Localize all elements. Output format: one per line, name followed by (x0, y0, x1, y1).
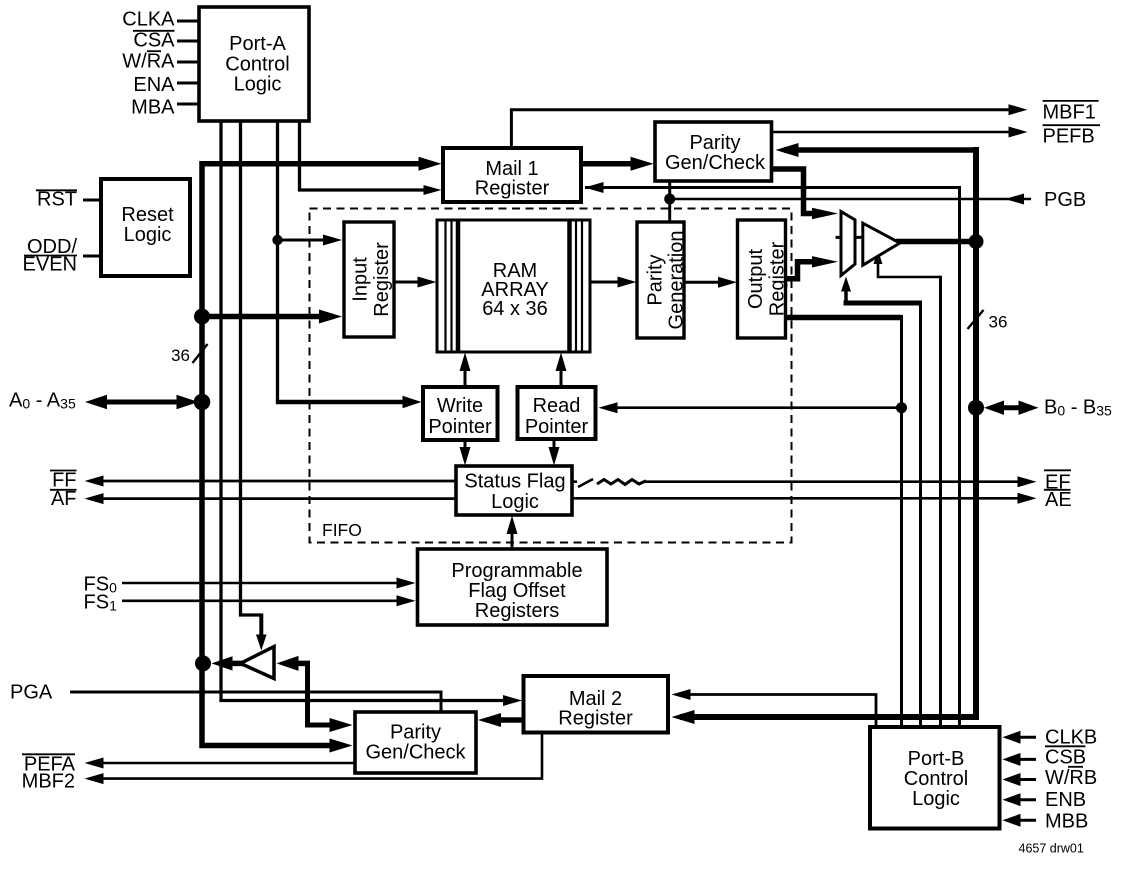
arrowhead: PEFA out (85, 758, 104, 769)
wire: Mail 2 Register thick output to bottom Parity Gen/Check (489, 717, 524, 723)
svg-text:Flag Offset: Flag Offset (468, 580, 566, 602)
svg-text:Input: Input (350, 257, 372, 302)
wire: MBF2 output from Mail 2 Register bottom (95, 733, 542, 779)
arrowhead: Mail 1 thick out into Parity Gen/Check (631, 157, 654, 171)
arrowhead: RAM into Parity Generation (618, 277, 637, 288)
wire: A-port thick bus (left vertical) with top branch to Mail 1 and bottom branch to Parity Gen/Check (202, 164, 433, 746)
wire: PGA input line turning down into bottom Parity Gen/Check (70, 692, 441, 712)
svg-text:Mail 1: Mail 1 (485, 158, 538, 180)
wire: stub between output buffers (836, 236, 867, 239)
slash: B bus width mark 36 (968, 310, 984, 329)
svg-text:Pointer: Pointer (525, 416, 589, 438)
watermark smudge over EF line (577, 475, 645, 489)
svg-text:Register: Register (767, 241, 789, 316)
output buffer 2 (front triangle) (863, 223, 900, 265)
arrowhead: Output Register out into output buffer 2 (812, 256, 838, 267)
wire: W/RA stub (177, 61, 200, 64)
wire: MBA stub (177, 103, 200, 106)
box: Output Register (738, 220, 786, 338)
junction dot: B bus at B0-B35 port (968, 400, 984, 416)
svg-text:4657 drw01: 4657 drw01 (1019, 842, 1084, 856)
arrowhead: FS1 into Programmable registers (397, 595, 416, 606)
output buffer 1 (back, trapezoid) (841, 212, 855, 276)
arrowhead: thick A bus into Mail 1 (419, 157, 442, 171)
wire: Read Pointer up to RAM (560, 360, 563, 387)
arrowhead: thick B bus into Mail 2 right (672, 710, 695, 724)
wire: ODD/EVEN stub into Reset Logic (83, 255, 102, 258)
wire: RST stub into Reset Logic (83, 199, 102, 202)
wire: Port-A vertical line 2 jog down to left tri-state enable (241, 121, 262, 615)
wire: Port-A vertical line 1 down to Mail 2 Register thin input (221, 121, 512, 701)
arrowhead: Mail 2 out into bottom Parity Gen/Check right (478, 713, 501, 727)
box: Parity Generation (637, 222, 684, 338)
arrowhead: into Read Pointer right (599, 402, 618, 413)
box: RAM ARRAY 64 x 36 (437, 220, 590, 352)
wire: Write Pointer up to RAM (464, 360, 467, 387)
svg-text:Parity: Parity (689, 132, 740, 154)
wire: FS1 input line (122, 599, 407, 602)
svg-text:Reset: Reset (121, 204, 174, 226)
left tri-state buffer triangle (240, 647, 274, 679)
wire: PEFB output from Parity Gen/Check (772, 131, 1010, 134)
svg-text:Output: Output (745, 249, 767, 309)
arrowhead: Parity Gen/Check out into output buffer 1 (812, 208, 838, 219)
box: Parity Gen/Check (bottom) (355, 712, 476, 773)
arrowhead: EF out (1018, 476, 1037, 487)
wire: line from Mail 1 right side to Port-B vertical (585, 188, 960, 728)
svg-text:Read: Read (533, 395, 581, 417)
box: Port-A Control Logic (199, 7, 309, 121)
wire: output buffer 2 enable from Port-B (878, 258, 941, 277)
svg-text:36: 36 (171, 346, 190, 365)
wire: Parity Gen/Check thick output elbow to output buffer upper input (772, 169, 819, 214)
wire: thick branch from A bus to Input Register (202, 314, 334, 320)
arrowhead: line into Mail 1 right side (585, 182, 604, 193)
wire: CLKB stub arrow shaft (1011, 736, 1036, 739)
junction dot: Read Pointer feed on Port-B vertical (896, 402, 907, 413)
wire: EF flag output line (broken by watermark smudge) (572, 480, 1027, 483)
arrowhead: Read Pointer down into Status Flag Logic (549, 447, 560, 466)
wire: branch from line 3 to Input Register thin input (278, 239, 334, 242)
wire: vertical from Parity Gen/Check down to Parity Generation (668, 181, 671, 221)
junction dot: A bus at left tri-state output (195, 655, 211, 671)
arrowhead: thin line into Input Register (323, 235, 342, 246)
arrowhead: FF out (85, 476, 104, 487)
junction dot: Port-A line 3 branch to Input Register (272, 235, 282, 245)
wire: ENA stub (177, 82, 200, 85)
svg-text:PGA: PGA (10, 682, 53, 704)
svg-text:ENB: ENB (1045, 789, 1086, 811)
box: Reset Logic (101, 179, 190, 276)
svg-text:Pointer: Pointer (428, 416, 492, 438)
box: Write Pointer (423, 387, 498, 440)
arrowhead: MBF1 out (1009, 104, 1028, 115)
wire: Output Register bottom thick wire to Port-B vertical (786, 315, 902, 321)
svg-text:Logic: Logic (491, 491, 539, 513)
svg-text:Write: Write (437, 395, 483, 417)
arrowhead: Write Pointer down into Status Flag Logic (460, 447, 471, 466)
svg-text:Logic: Logic (124, 224, 172, 246)
wire: CLKA stub into Port-A Control Logic (177, 20, 200, 23)
svg-text:CSB: CSB (1045, 747, 1086, 769)
wire: Mail 1 Register top output to MBF1 (511, 110, 1009, 148)
wire: FF flag output line (95, 480, 456, 483)
svg-text:Generation: Generation (666, 231, 688, 330)
arrowhead: Programmable registers up into Status Flag Logic (507, 516, 518, 535)
svg-text:36: 36 (989, 313, 1008, 332)
arrowhead: Input Register into RAM (418, 277, 437, 288)
arrowhead: thick B wire into Parity Gen/Check right (776, 143, 799, 157)
wire: thick wire from B bus into Parity Gen/Check right side (784, 147, 976, 153)
arrowhead: A bus into bottom Parity Gen/Check input 2 (330, 739, 353, 753)
arrowhead: B0-B35 right (1019, 401, 1039, 415)
wire: left tri-state enable vertical (thick) (259, 614, 263, 637)
svg-text:PEFB: PEFB (1043, 126, 1095, 148)
svg-text:Port-A: Port-A (229, 33, 286, 55)
svg-text:Control: Control (225, 53, 289, 75)
wire: CSA stub (177, 40, 200, 43)
wire: Input Register to RAM (394, 281, 429, 284)
svg-text:ENA: ENA (133, 74, 175, 96)
wire: Port-A vertical line 4 to Mail 1 Register thin input (300, 121, 433, 190)
arrowhead: A0-A35 right into bus (177, 395, 199, 409)
wire: Port-B vertical from Output Register wire (900, 315, 903, 727)
arrowhead: thin into Mail 2 left (503, 695, 522, 706)
arrowhead: MBB into Port-B (1003, 814, 1021, 827)
arrowhead: enable down into left tri-state (256, 635, 267, 651)
svg-text:AE: AE (1045, 489, 1072, 511)
wire: PEFA output line (95, 762, 355, 765)
arrowhead: into Write Pointer left (403, 396, 422, 408)
svg-text:RST: RST (37, 189, 77, 211)
wire: FS0 input line (122, 582, 407, 585)
wire: output buffer 1 enable from Port-B (844, 285, 848, 303)
svg-text:Parity: Parity (645, 254, 667, 305)
wire: RAM to Parity Generation (590, 281, 629, 284)
slash: A bus width mark 36 (193, 344, 208, 363)
box: Read Pointer (518, 387, 596, 439)
svg-text:MBB: MBB (1045, 811, 1088, 833)
svg-text:64 x 36: 64 x 36 (482, 298, 548, 320)
box: Mail 1 Register (443, 148, 581, 202)
wire: Port-A vertical line 3 down to Write Pointer input (276, 121, 279, 402)
box: Programmable Flag Offset Registers (418, 549, 608, 625)
arrowhead: PEFB out (1009, 127, 1028, 138)
svg-text:Gen/Check: Gen/Check (665, 152, 766, 174)
arrowhead: thick feed into bottom Parity Gen/Check input 1 (330, 718, 353, 732)
wire: Read Pointer input from Port-B vertical (607, 406, 902, 409)
junction dot: A bus at A0-A35 port (194, 394, 211, 411)
svg-text:Programmable: Programmable (451, 560, 582, 582)
arrowhead: W/RB into Port-B (1003, 773, 1021, 786)
wire: MBB stub arrow shaft (1011, 819, 1036, 822)
arrowhead: thin Port-A line into Mail 1 (424, 185, 442, 195)
svg-text:MBF1: MBF1 (1043, 102, 1096, 124)
arrowhead: enable 2 up into output buffer 2 (874, 251, 883, 265)
arrowhead: MBF2 out (85, 773, 104, 784)
wire: CSB stub arrow shaft (1011, 758, 1036, 761)
svg-text:MBF2: MBF2 (22, 771, 75, 793)
wire: left tri-state output to A bus (228, 661, 242, 667)
arrowhead: FS0 into Programmable registers (397, 578, 416, 589)
wire: B0-B35 port double-arrow shaft (995, 405, 1026, 410)
arrowhead: PGB in (1005, 194, 1024, 205)
svg-text:Logic: Logic (912, 788, 960, 810)
wire: ENB stub arrow shaft (1011, 798, 1036, 801)
svg-text:Register: Register (475, 178, 550, 200)
svg-text:EVEN: EVEN (23, 254, 77, 276)
junction dot: output buffer to B bus (969, 234, 984, 249)
arrowhead: thick A bus into Input Register (319, 310, 342, 324)
wire: output buffer output to B bus (896, 239, 976, 245)
svg-text:Status Flag: Status Flag (464, 471, 565, 493)
svg-text:CLKA: CLKA (122, 9, 175, 31)
wire: vertical thick feed down into bottom Parity Gen/Check input 1 (308, 661, 344, 725)
svg-text:Port-B: Port-B (908, 748, 965, 770)
svg-text:W/RB: W/RB (1045, 767, 1097, 789)
wire: Read Pointer down to Status Flag Logic (553, 439, 556, 459)
svg-text:AF: AF (51, 488, 77, 510)
wire: AE flag output line (572, 497, 1027, 500)
arrowhead: Write Pointer up into RAM (460, 353, 471, 372)
FIFO dashed boundary box (310, 209, 792, 543)
wire: PGB input line (670, 198, 1031, 201)
svg-text:CSA: CSA (133, 30, 175, 52)
box: Status Flag Logic (456, 466, 572, 515)
wire: A0-A35 port double-arrow shaft (100, 400, 183, 405)
wire: B-port thick bus (right vertical) with bottom branch to Mail 2 Register (680, 147, 976, 717)
svg-text:Registers: Registers (475, 600, 559, 622)
arrowhead: Read Pointer up into RAM (556, 353, 567, 372)
wire: Mail 1 Register thick output to Parity Gen/Check (581, 161, 645, 167)
svg-text:Register: Register (371, 242, 393, 317)
box: Parity Gen/Check (top) (655, 122, 772, 181)
wire: Write Pointer down to Status Flag Logic (464, 440, 467, 459)
wire: Mail 2 Register thin input from Port-B Control Logic (680, 695, 876, 728)
junction dot: A bus to Input Register (194, 309, 210, 325)
wire: left tri-state input thick wire from vertical feed (294, 661, 310, 667)
svg-text:Register: Register (558, 708, 633, 730)
arrowhead: AE out (1018, 493, 1037, 504)
wire: AF flag output line (95, 497, 456, 500)
arrowhead: CLKB into Port-B (1003, 731, 1021, 744)
wire: Programmable Flag Offset Registers up to Status Flag Logic (511, 521, 514, 549)
svg-text:PGB: PGB (1044, 189, 1086, 211)
svg-text:Parity: Parity (390, 722, 441, 744)
svg-text:Logic: Logic (234, 73, 282, 95)
arrowhead: AF out (85, 493, 104, 504)
wire: Parity Generation to Output Register (684, 281, 730, 284)
wire: Output Register thick elbow to output buffer lower input (786, 262, 819, 279)
svg-text:Gen/Check: Gen/Check (365, 742, 466, 764)
svg-text:W/RA: W/RA (122, 50, 175, 72)
svg-text:FIFO: FIFO (322, 520, 362, 540)
box: Input Register (344, 222, 394, 337)
wire: W/RB stub arrow shaft (1011, 778, 1036, 781)
arrowhead: Parity Generation into Output Register (718, 277, 737, 288)
arrowhead: thick into left tri-state input (277, 656, 299, 671)
box: Mail 2 Register (524, 676, 669, 733)
junction dot: PGB joins Parity Generation vertical (664, 194, 675, 205)
svg-text:CLKB: CLKB (1045, 727, 1097, 749)
arrowhead: left tri-state output into A bus (212, 656, 233, 670)
svg-text:MBA: MBA (131, 96, 175, 118)
arrowhead: ENB into Port-B (1003, 793, 1021, 806)
arrowhead: A0-A35 left (85, 395, 107, 409)
arrowhead: B0-B35 left into bus (984, 401, 1004, 415)
box: Port-B Control Logic (870, 727, 1000, 829)
arrowhead: enable 1 up into output buffer 1 (841, 277, 851, 292)
arrowhead: CSB into Port-B (1003, 753, 1021, 766)
arrowhead: thin into Mail 2 right (672, 689, 691, 700)
svg-text:Control: Control (904, 768, 968, 790)
